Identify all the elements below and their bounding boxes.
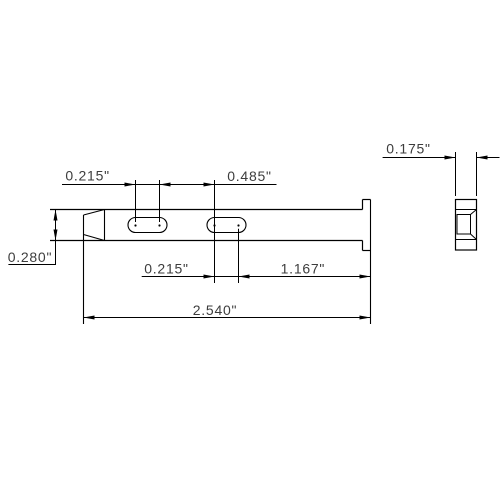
extension line slot1 right center — [159, 180, 161, 222]
extension line end view right — [476, 152, 478, 196]
end view recess inner rectangle — [457, 215, 471, 235]
flange left step lower — [362, 241, 364, 251]
slot 1 — [128, 218, 167, 233]
chisel tip top chamfer — [84, 210, 105, 216]
flange top edge — [363, 199, 371, 201]
label 0.280 leader underline — [8, 264, 55, 266]
arrow down at body bottom (0.280) — [54, 230, 58, 241]
arrow left at slot2 right center (bottom) — [239, 275, 250, 279]
dimension line 0.280 vertical — [55, 210, 57, 266]
dimension line 0.175 left segment — [383, 157, 456, 159]
extension line slot2 right center — [238, 229, 240, 283]
dimension line 0.175 right segment — [477, 157, 500, 159]
flange left step upper — [362, 200, 364, 210]
svg-text:0.280": 0.280" — [8, 249, 53, 265]
tip-body joint line — [104, 210, 106, 241]
arrow left at end view right edge (0.175) — [477, 156, 488, 160]
part body bottom edge with 0.280 extension — [50, 240, 363, 242]
slot 2 — [207, 218, 246, 233]
slot 1 left center dot — [134, 224, 136, 226]
arrow right at end view left edge (0.175) — [445, 156, 456, 160]
extension line slot2 left center — [214, 180, 216, 283]
end view lower face line — [456, 239, 477, 241]
arrow right at slot1 left center — [125, 183, 136, 187]
arrow right at part right end (1.167) — [360, 275, 371, 279]
dimension line bottom (0.215 / 1.167) — [142, 276, 371, 278]
svg-text:0.175": 0.175" — [386, 141, 431, 157]
arrow right at part right end (2.540) — [360, 316, 371, 320]
extension line slot1 left center — [135, 180, 137, 222]
chisel tip left edge + 2.540 left extension line — [83, 215, 85, 324]
end view outer outline — [456, 200, 477, 251]
arrow up at body top (0.280) — [54, 210, 58, 221]
end view upper face line — [456, 209, 477, 211]
slot 2 left center dot — [213, 224, 215, 226]
svg-text:0.215": 0.215" — [144, 260, 189, 276]
svg-text:2.540": 2.540" — [193, 302, 238, 318]
extension line end view left — [455, 152, 457, 196]
flange right edge + 2.540/1.167 right extension line — [370, 200, 372, 325]
dimension line top (0.215 / 0.485) — [62, 184, 277, 186]
chisel tip bottom chamfer — [84, 235, 105, 241]
slot 2 right center dot — [237, 224, 239, 226]
part body top edge with 0.280 extension — [50, 209, 363, 211]
svg-text:1.167": 1.167" — [281, 261, 326, 277]
arrow right at slot2 left center (bottom) — [204, 275, 215, 279]
arrow right at slot2 left center (top) — [204, 183, 215, 187]
arrow left at slot1 right center — [160, 183, 171, 187]
end view recess bottom-right chamfer — [471, 234, 477, 240]
svg-text:0.215": 0.215" — [65, 168, 110, 184]
flange bottom edge — [363, 250, 371, 252]
svg-text:0.485": 0.485" — [227, 168, 272, 184]
arrow left at part left end (2.540) — [84, 316, 95, 320]
slot 1 right center dot — [158, 224, 160, 226]
end view recess top-right chamfer — [471, 210, 477, 215]
dimension line 2.540 — [84, 317, 371, 319]
